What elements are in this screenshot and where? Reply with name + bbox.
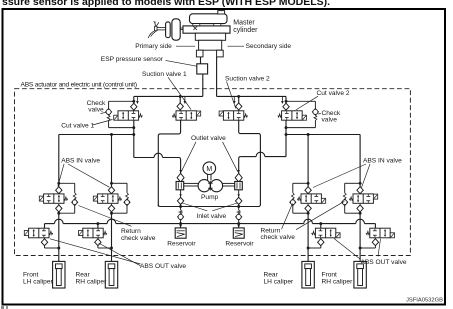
svg-text:LH caliper: LH caliper: [264, 278, 294, 285]
svg-text:Inlet valve: Inlet valve: [197, 213, 227, 220]
svg-text:Reservoir: Reservoir: [167, 241, 196, 248]
svg-text:ABS OUT valve: ABS OUT valve: [140, 263, 186, 270]
svg-text:RH caliper: RH caliper: [76, 278, 108, 285]
svg-text:Rear: Rear: [76, 271, 91, 278]
svg-text:ABS IN valve: ABS IN valve: [61, 157, 100, 164]
svg-text:Front: Front: [322, 271, 338, 278]
svg-text:ABS IN valve: ABS IN valve: [363, 157, 402, 164]
svg-text:Cut valve 1: Cut valve 1: [61, 123, 94, 130]
svg-text:Rear: Rear: [264, 271, 279, 278]
svg-text:valve: valve: [322, 117, 338, 124]
svg-text:M: M: [206, 166, 212, 173]
svg-text:LH caliper: LH caliper: [23, 278, 53, 285]
svg-text:Reservoir: Reservoir: [225, 241, 254, 248]
svg-text:cylinder: cylinder: [233, 27, 258, 34]
svg-text:Pump: Pump: [201, 194, 219, 201]
svg-text:check valve: check valve: [121, 235, 156, 242]
svg-text:valve: valve: [88, 107, 104, 114]
svg-text:Primary side: Primary side: [135, 43, 172, 50]
svg-text:ABS OUT valve: ABS OUT valve: [361, 259, 407, 266]
svg-text:Suction valve 2: Suction valve 2: [225, 75, 270, 82]
svg-text:check valve: check valve: [261, 234, 296, 241]
svg-text:Secondary side: Secondary side: [246, 43, 292, 50]
svg-text:Master: Master: [233, 20, 255, 27]
svg-text:JSFIA0532GB: JSFIA0532GB: [406, 298, 443, 304]
svg-text:Suction valve 1: Suction valve 1: [142, 71, 187, 78]
svg-text:Front: Front: [23, 271, 39, 278]
svg-text:RH caliper: RH caliper: [322, 278, 354, 285]
svg-text:ABS actuator and electric unit: ABS actuator and electric unit (control …: [21, 81, 137, 88]
svg-text:ESP pressure sensor: ESP pressure sensor: [101, 56, 164, 63]
svg-text:Outlet valve: Outlet valve: [191, 135, 226, 142]
svg-text:Cut valve 2: Cut valve 2: [317, 90, 350, 97]
